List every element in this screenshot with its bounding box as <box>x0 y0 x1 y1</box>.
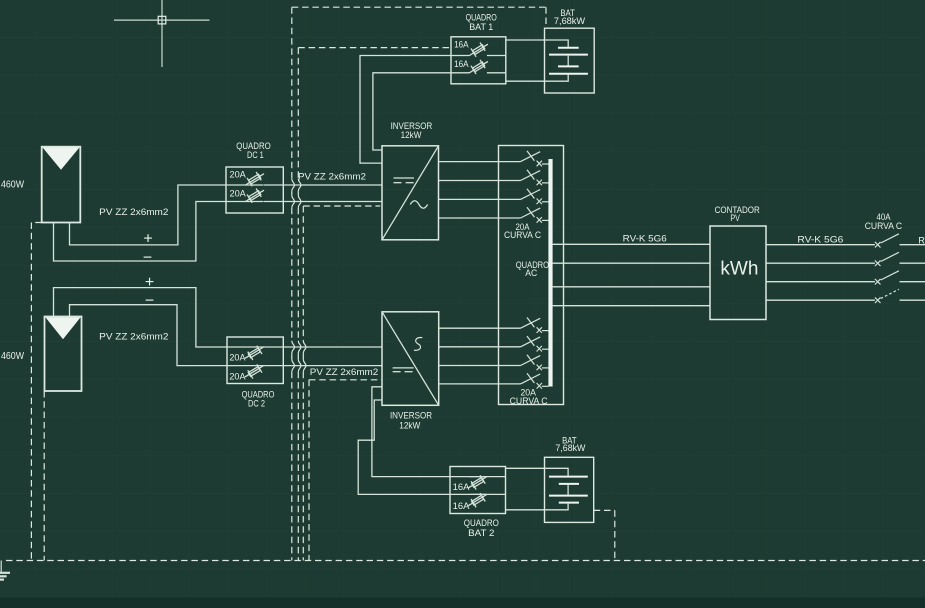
breaker 20A top 2 <box>521 170 549 185</box>
svg-text:+: + <box>143 230 152 247</box>
dashed boundary stub at battery 1 <box>545 7 547 28</box>
wire BAT1 top <box>506 39 545 41</box>
label QUADRO BAT 1 <box>466 13 497 33</box>
inverter U1 box <box>382 146 439 240</box>
label cable RV-K 5G6 right <box>797 235 843 245</box>
wire contador to breaker 2 <box>766 262 875 264</box>
breaker 20A bottom 2 <box>521 336 549 351</box>
wire inverter 2 AC phase 1 <box>439 327 521 329</box>
label cable PV ZZ 2x6mm2 string 1 <box>99 207 168 217</box>
wire DC2 to inverter 2 row2 <box>263 365 382 367</box>
svg-text:460W: 460W <box>1 351 24 362</box>
svg-text:CURVA C: CURVA C <box>865 221 903 231</box>
label INVERSOR 12kW (U2) <box>390 411 432 432</box>
wire DC2 to inverter 2 row1 <box>263 346 382 348</box>
svg-text:16A: 16A <box>453 482 470 492</box>
label F8 16A <box>453 501 470 511</box>
breaker 40A pole 3 <box>875 271 899 285</box>
inverter U2 box <box>382 312 439 406</box>
label 20A CURVA C bottom <box>510 388 549 406</box>
label F7 16A <box>453 482 470 492</box>
label INVERSOR 12kW (U1) <box>391 121 433 141</box>
label kWh <box>720 258 758 280</box>
label 40A CURVA C <box>865 212 903 231</box>
wire breaker 4 to edge <box>900 299 925 301</box>
inverter U2 AC symbol <box>414 338 422 351</box>
fuse F3 20A (DC2) <box>227 346 263 360</box>
dashed boundary inverter-2 cutout <box>309 380 381 561</box>
wire inverter 2 AC phase 3 <box>439 365 521 367</box>
battery BAT1 cells <box>545 40 588 81</box>
fuse F1 20A (DC1) <box>226 172 264 186</box>
wire PV1 negative <box>54 202 227 262</box>
wire inverter 2 AC phase 4 <box>439 383 521 385</box>
node PV1 − label <box>143 249 152 266</box>
wire breaker 1 to edge <box>900 244 925 246</box>
inverter U2 DC symbol <box>393 368 414 372</box>
svg-text:RV-K 5G6: RV-K 5G6 <box>797 235 843 245</box>
wire DC1 to inverter 1 row2 <box>263 201 382 203</box>
breaker 40A pole 4 <box>875 289 899 303</box>
enclosure QUADRO BAT 2 <box>450 467 506 514</box>
svg-text:PV ZZ 2x6mm2: PV ZZ 2x6mm2 <box>310 367 379 377</box>
battery BAT2 cells <box>545 468 588 510</box>
wire contador to breaker 3 <box>766 281 875 283</box>
svg-text:CURVA C: CURVA C <box>504 230 542 240</box>
svg-text:BAT 1: BAT 1 <box>469 22 493 33</box>
enclosure QUADRO BAT 1 <box>451 37 506 84</box>
inverter U1 AC symbol <box>410 201 427 208</box>
wire inverter 1 AC phase 2 <box>439 180 521 182</box>
node PV2 − label <box>145 293 154 310</box>
wire breaker 3 to edge <box>900 281 925 283</box>
enclosure QUADRO DC 1 <box>226 167 283 213</box>
label cable PV ZZ 2x6mm2 string 2 <box>99 332 168 342</box>
svg-text:RV-K 5G6: RV-K 5G6 <box>623 234 667 244</box>
svg-text:7,68kW: 7,68kW <box>555 443 585 454</box>
wire PV1 positive <box>70 185 227 245</box>
wire busbar to contador 2 <box>553 262 710 264</box>
dashed boundary inner top <box>298 47 451 49</box>
enclosure QUADRO AC <box>499 146 564 405</box>
fuse F6 16A (BAT1) <box>451 60 506 74</box>
label F6 16A <box>454 59 469 69</box>
wire BAT1 bottom <box>506 80 545 82</box>
wire contador to breaker 1 <box>766 244 875 246</box>
label F2 20A <box>230 188 246 198</box>
breaker 40A pole 1 <box>875 234 899 248</box>
label F5 16A <box>454 40 469 50</box>
inverter U1 DC symbol <box>394 178 415 183</box>
label CONTADOR PV <box>715 205 760 224</box>
label BAT 7,68kW (1) <box>554 8 585 27</box>
wire inverter 1 AC phase 3 <box>439 198 521 200</box>
breaker 20A top 1 <box>521 151 549 166</box>
breaker 20A bottom 4 <box>521 373 549 388</box>
wire breaker 2 to edge <box>900 262 925 264</box>
label clipped R at edge <box>918 235 925 245</box>
dashed boundary inverter-1 cutout <box>303 206 380 561</box>
svg-text:BAT 2: BAT 2 <box>468 528 494 539</box>
ground <box>0 561 10 580</box>
svg-text:12kW: 12kW <box>399 420 420 431</box>
wire busbar to contador 3 <box>553 286 710 288</box>
wire BAT2 top <box>506 467 545 469</box>
svg-text:DC 2: DC 2 <box>248 398 265 409</box>
node PV1 + label <box>143 230 152 247</box>
wire PV2 positive <box>54 288 228 347</box>
breaker 40A pole 2 <box>875 252 899 266</box>
wire busbar to contador 1 <box>553 243 710 245</box>
battery BAT1 box <box>545 28 595 93</box>
label PV1 460W <box>1 179 24 190</box>
fuse F2 20A (DC1) <box>226 189 264 203</box>
wire inverter 2 to battery fuse 1 <box>372 387 450 477</box>
wire PV2 negative <box>70 305 228 366</box>
wire inverter 2 AC phase 2 <box>439 346 521 348</box>
wire busbar to contador 4 <box>553 305 710 307</box>
wire contador to breaker 4 <box>766 299 875 301</box>
label QUADRO BAT 2 <box>464 518 499 539</box>
cursor crosshair <box>114 0 210 67</box>
label 20A CURVA C top <box>504 222 542 240</box>
dashed boundary PV string 1 <box>31 223 41 561</box>
fuse F7 16A (BAT2) <box>450 475 506 489</box>
label F3 20A <box>229 353 245 363</box>
svg-text:PV ZZ 2x6mm2: PV ZZ 2x6mm2 <box>99 207 168 217</box>
breaker 20A bottom 3 <box>521 355 549 370</box>
label PV2 460W <box>1 351 24 362</box>
label BAT 7,68kW (2) <box>555 435 585 454</box>
svg-text:−: − <box>145 293 154 310</box>
svg-text:CURVA C: CURVA C <box>510 396 549 406</box>
svg-text:20A: 20A <box>229 371 245 381</box>
svg-text:AC: AC <box>525 268 537 279</box>
breaker 20A bottom 1 <box>521 318 549 333</box>
dashed boundary bottom <box>6 560 925 562</box>
dashed boundary outer top <box>292 6 546 8</box>
wire DC1 to inverter 1 row1 <box>263 184 382 186</box>
svg-text:+: + <box>145 274 154 291</box>
dashed boundary outer left <box>292 7 295 560</box>
wire inverter 2 to battery fuse 2 <box>358 400 450 494</box>
svg-text:12kW: 12kW <box>401 130 422 141</box>
svg-text:16A: 16A <box>453 501 470 511</box>
label cable RV-K 5G6 left <box>623 234 667 244</box>
wire inverter 1 AC phase 4 <box>439 217 521 219</box>
meter CONTADOR PV box <box>710 226 766 320</box>
svg-text:PV ZZ 2x6mm2: PV ZZ 2x6mm2 <box>298 172 366 182</box>
svg-text:20A: 20A <box>229 353 245 363</box>
wire battery fuse 1 to inverter 1 <box>360 56 451 164</box>
svg-text:20A: 20A <box>230 188 246 198</box>
label QUADRO DC 2 <box>242 389 275 409</box>
wire battery fuse 2 to inverter 1 <box>373 73 451 150</box>
svg-text:−: − <box>143 249 152 266</box>
svg-text:PV ZZ 2x6mm2: PV ZZ 2x6mm2 <box>99 332 168 342</box>
PV panel PV1 <box>42 147 81 223</box>
svg-text:PV: PV <box>730 213 740 224</box>
fuse F4 20A (DC2) <box>227 364 263 378</box>
dashed boundary inner left <box>298 48 301 561</box>
wire BAT2 bottom <box>506 509 545 511</box>
svg-text:16A: 16A <box>454 40 469 50</box>
svg-text:DC 1: DC 1 <box>247 150 264 161</box>
svg-text:RV: RV <box>918 235 925 245</box>
label F4 20A <box>229 371 245 381</box>
node PV2 + label <box>145 274 154 291</box>
svg-text:kWh: kWh <box>720 258 758 280</box>
label QUADRO AC <box>516 260 549 279</box>
wire inverter 1 AC phase 1 <box>439 161 521 163</box>
label cable PV ZZ 2x6mm2 inverter 1 <box>298 172 366 182</box>
svg-text:460W: 460W <box>1 179 24 190</box>
dashed boundary battery 2 corner <box>594 510 615 560</box>
breaker 20A top 3 <box>521 189 549 204</box>
battery BAT2 box <box>545 457 594 522</box>
svg-text:20A: 20A <box>230 169 246 179</box>
PV panel PV2 <box>45 317 82 392</box>
busbar AC <box>548 159 552 387</box>
breaker 20A top 4 <box>521 207 549 222</box>
svg-text:7,68kW: 7,68kW <box>554 16 585 27</box>
label cable PV ZZ 2x6mm2 inverter 2 <box>310 367 379 377</box>
label F1 20A <box>230 169 246 179</box>
enclosure QUADRO DC 2 <box>227 337 283 384</box>
dashed boundary PV string 2 <box>43 391 45 561</box>
svg-text:16A: 16A <box>454 59 469 69</box>
label QUADRO DC 1 <box>236 141 271 161</box>
fuse F5 16A (BAT1) <box>451 43 506 57</box>
fuse F8 16A (BAT2) <box>450 493 506 507</box>
